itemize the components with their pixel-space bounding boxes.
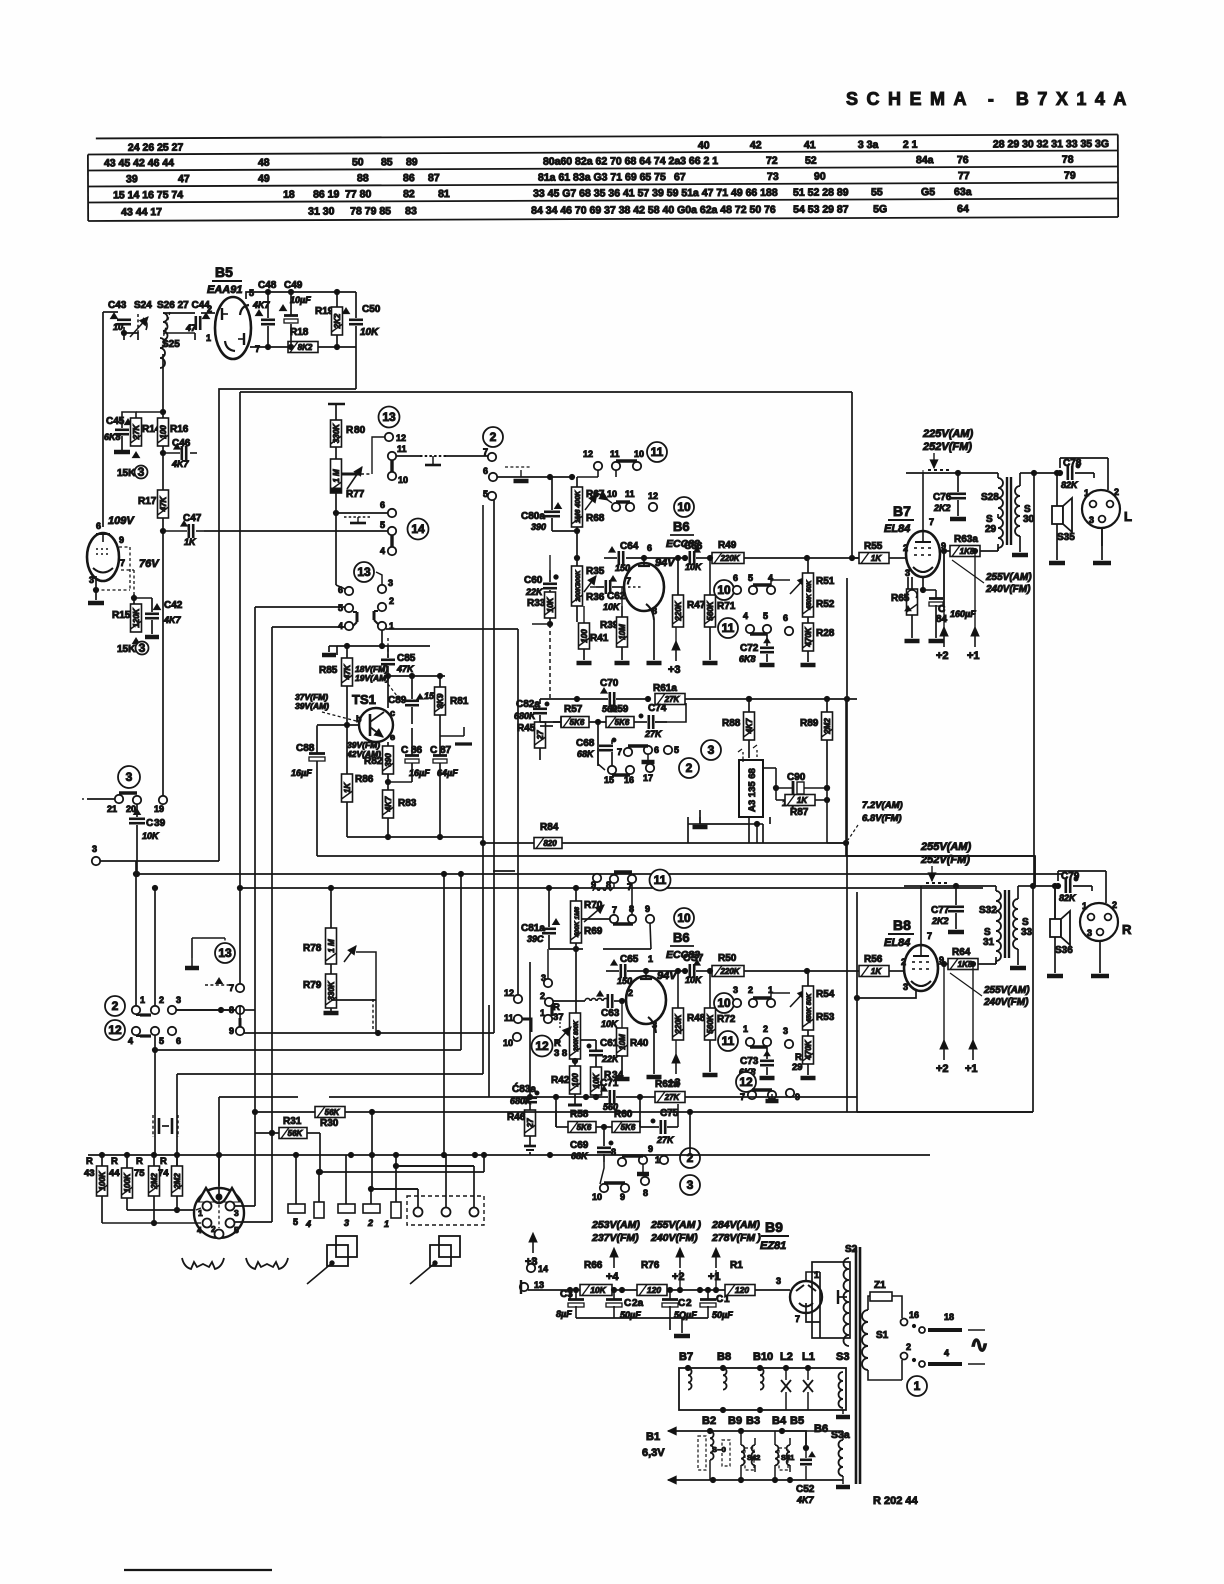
resistor R49 220K (682, 540, 860, 564)
wire pin3 node (923, 590, 936, 598)
svg-text:220K: 220K (719, 554, 740, 563)
potentiometer R77 1M (331, 459, 365, 500)
svg-text:R72: R72 (717, 1014, 736, 1025)
svg-text:2K2: 2K2 (333, 313, 342, 329)
resistor R28 470K (801, 623, 835, 665)
svg-text:83: 83 (405, 205, 417, 217)
contact 7t (483, 447, 496, 461)
contact 14 psu (527, 1264, 548, 1274)
potentiometer R38 (554, 949, 581, 1059)
resistor R89 2M2 (800, 699, 833, 770)
svg-text:EL84: EL84 (884, 523, 910, 535)
plus1 arrow b8 (965, 961, 978, 1075)
svg-text:S36: S36 (1055, 945, 1073, 956)
wire x518 871 (493, 870, 515, 872)
svg-text:10K: 10K (685, 975, 703, 985)
contact 7L (229, 983, 244, 993)
capacitor C39 (129, 809, 166, 841)
svg-text:R: R (160, 1156, 167, 1167)
svg-text:8: 8 (629, 904, 634, 914)
svg-text:12: 12 (535, 1039, 549, 1053)
contact 6m (733, 573, 741, 594)
svg-text:1: 1 (743, 1024, 748, 1034)
svg-text:6.8V(FM): 6.8V(FM) (862, 813, 902, 824)
svg-text:4: 4 (305, 1219, 311, 1229)
svg-text:2: 2 (367, 1218, 373, 1228)
svg-text:Ć83a: Ć83a (512, 1082, 536, 1095)
pin6 label (96, 521, 101, 531)
label B1 63V (642, 1431, 665, 1459)
contact 3mm (733, 985, 741, 1007)
svg-text:77 80: 77 80 (345, 188, 371, 200)
svg-text:5: 5 (483, 489, 488, 499)
contact 7d (617, 747, 632, 757)
svg-text:31 30: 31 30 (308, 206, 334, 218)
svg-text:C52: C52 (796, 1484, 815, 1495)
svg-text:2K2: 2K2 (931, 916, 949, 926)
svg-text:27K: 27K (644, 729, 663, 739)
svg-text:68K: 68K (577, 749, 595, 759)
svg-text:R47: R47 (687, 600, 706, 611)
svg-text:5: 5 (338, 603, 343, 613)
svg-text:76V: 76V (139, 558, 160, 570)
wire C42 bottom (145, 620, 159, 637)
wire R48 R72 bottoms b (703, 1040, 718, 1075)
bar mm (753, 996, 771, 999)
svg-text:75: 75 (134, 1168, 145, 1179)
wire C69 contacts (600, 1162, 604, 1184)
capacitor C89 (388, 676, 442, 724)
svg-text:C85: C85 (397, 653, 416, 664)
wire 8L row (244, 1009, 255, 1011)
labels voltages psu (591, 1219, 761, 1244)
svg-text:B2: B2 (702, 1415, 716, 1427)
wire pin5 out (235, 1133, 272, 1222)
svg-text:R36: R36 (586, 592, 605, 603)
wire c78 junction (1054, 470, 1059, 475)
pin3 label (89, 575, 94, 585)
wire x690 vert (687, 1109, 692, 1155)
coil S24 (130, 300, 152, 337)
svg-text:11: 11 (722, 621, 735, 635)
svg-text:R68: R68 (586, 513, 605, 524)
svg-text:Z1: Z1 (874, 1280, 886, 1291)
pins EZ81 (795, 1270, 819, 1324)
svg-text:B9: B9 (765, 1219, 783, 1235)
svg-text:43 44 17: 43 44 17 (121, 206, 162, 218)
svg-text:1 M: 1 M (332, 469, 341, 483)
circled 10 mid (714, 580, 734, 600)
svg-text:10: 10 (592, 1192, 602, 1202)
bar 4n-5n (750, 632, 767, 635)
svg-text:4: 4 (197, 1225, 202, 1235)
resistor R47 220K (673, 555, 706, 627)
core main (856, 1247, 860, 1484)
svg-text:255V(AM ): 255V(AM ) (650, 1219, 701, 1231)
svg-text:R28: R28 (816, 628, 835, 639)
wire sw10 tap (596, 492, 612, 503)
capacitor C68 (576, 722, 616, 759)
svg-text:3 8: 3 8 (554, 1048, 567, 1059)
svg-text:100K: 100K (123, 1172, 132, 1192)
resistor R18 8K2 (288, 327, 318, 353)
svg-text:560K: 560K (706, 600, 715, 620)
wire speaker R (1047, 886, 1063, 976)
wire x550 down (529, 962, 531, 1088)
svg-text:EL84: EL84 (884, 937, 910, 949)
wire 392 rail right (851, 392, 853, 558)
svg-text:5K6: 5K6 (615, 718, 630, 727)
coil S1 (862, 1310, 889, 1370)
resistor R57 5K6 (540, 704, 589, 728)
svg-text:C42: C42 (164, 600, 183, 611)
svg-text:15K: 15K (117, 644, 136, 655)
svg-text:84: 84 (936, 614, 948, 625)
contact 6t (483, 466, 497, 481)
svg-text:8: 8 (652, 606, 657, 616)
svg-text:8: 8 (643, 1188, 648, 1198)
contacts 3-2-1 left (503, 973, 553, 1048)
svg-text:R66: R66 (584, 1260, 603, 1271)
wire sw11 to R67 (577, 470, 616, 477)
bar 15d16d (612, 773, 630, 776)
dash bar left (205, 978, 232, 985)
svg-text:R30: R30 (320, 1118, 339, 1129)
svg-text:R50: R50 (718, 953, 737, 964)
wire top node TS1 (337, 638, 430, 658)
svg-text:200K800K: 200K800K (575, 569, 582, 602)
svg-text:1M6 400K: 1M6 400K (575, 490, 582, 523)
svg-text:1: 1 (648, 954, 653, 964)
svg-text:C73: C73 (740, 1056, 759, 1067)
coil b8a (723, 1368, 727, 1390)
svg-text:2: 2 (763, 1024, 768, 1034)
svg-text:R60: R60 (614, 1109, 633, 1120)
contacts 7-8-9 lower (610, 904, 654, 949)
svg-text:12: 12 (583, 449, 593, 459)
svg-text:R16: R16 (170, 424, 189, 435)
wire B5 pin7 row (250, 324, 356, 350)
wire c3b (376, 572, 382, 585)
circled 3 d (701, 740, 721, 760)
svg-text:47K: 47K (343, 663, 352, 680)
resistor R83 4K7 (383, 790, 417, 840)
svg-text:R89: R89 (800, 718, 819, 729)
svg-text:R57: R57 (564, 704, 583, 715)
svg-text:87: 87 (428, 172, 440, 184)
svg-text:150: 150 (615, 563, 630, 573)
jack squares 2 (410, 1236, 460, 1284)
svg-text:3: 3 (388, 578, 393, 588)
wire b8 pin2 (901, 970, 904, 972)
wire cathode gnd (647, 620, 662, 663)
contact 16 (901, 1310, 920, 1326)
svg-text:100: 100 (159, 425, 168, 439)
contact 5b (338, 603, 353, 613)
svg-text:22K: 22K (525, 587, 544, 597)
svg-text:10: 10 (607, 489, 617, 499)
wire 11-10 bar (390, 460, 393, 472)
svg-text:82: 82 (403, 188, 415, 200)
capacitor C76 (933, 473, 966, 519)
svg-text:3: 3 (783, 1026, 788, 1036)
resistor R61a 27K (653, 683, 857, 705)
coil b10a (760, 1368, 764, 1390)
svg-text:2: 2 (490, 430, 497, 444)
svg-text:51 52 28 89: 51 52 28 89 (793, 187, 849, 199)
svg-text:15K: 15K (117, 468, 136, 479)
din connector R (1080, 900, 1132, 941)
svg-text:R41: R41 (590, 633, 609, 644)
resistor R1 120 (697, 1260, 790, 1296)
capacitor C43 (108, 300, 131, 332)
svg-text:252V(FM): 252V(FM) (922, 441, 972, 453)
capacitor C62 (596, 576, 626, 612)
svg-text:2: 2 (906, 1342, 911, 1352)
resistor R42 100 (551, 1058, 582, 1105)
svg-text:24 26 25 27: 24 26 25 27 (128, 142, 184, 154)
svg-text:1: 1 (914, 1379, 921, 1393)
dashed cap sym1 (420, 456, 447, 465)
contact 2nn (763, 1024, 771, 1046)
gnd block (688, 817, 708, 827)
svg-text:C 39: C 39 (146, 818, 166, 829)
svg-text:84a: 84a (916, 154, 934, 166)
svg-text:C 2a: C 2a (624, 1298, 644, 1309)
svg-text:29: 29 (985, 524, 997, 535)
svg-text:39V(AM): 39V(AM) (295, 701, 329, 711)
svg-text:14: 14 (538, 1264, 548, 1274)
svg-text:120K: 120K (132, 607, 141, 627)
wire C74 R61a loop (655, 703, 686, 722)
svg-text:L1: L1 (802, 1351, 815, 1363)
speaker S36 (1050, 911, 1073, 956)
svg-text:100: 100 (571, 1073, 580, 1087)
svg-text:330K: 330K (327, 980, 336, 1000)
svg-text:R79: R79 (303, 980, 322, 991)
wire rail2 vertical (237, 392, 242, 891)
svg-text:220K: 220K (719, 967, 740, 976)
resistor R65 (891, 577, 920, 641)
svg-text:C64: C64 (620, 541, 639, 552)
svg-text:R35: R35 (586, 566, 605, 577)
resistor R60 5K6 (596, 1109, 640, 1133)
capacitor C46 (171, 438, 197, 469)
svg-text:R59: R59 (610, 704, 629, 715)
wire c5t down (483, 500, 494, 1033)
svg-text:56K: 56K (325, 1108, 341, 1117)
bar 2b-1b (374, 611, 378, 624)
contact 12 (385, 433, 406, 443)
svg-text:B6: B6 (814, 1423, 828, 1435)
transformer core R (1005, 890, 1009, 958)
bar 5b-4b (353, 612, 357, 626)
svg-text:3K9: 3K9 (436, 693, 445, 708)
svg-text:3: 3 (344, 1218, 349, 1228)
wire S33 top to C79 (1018, 883, 1061, 888)
svg-text:C65: C65 (620, 954, 639, 965)
svg-text:1 M: 1 M (327, 939, 336, 953)
pin 1 label (206, 333, 211, 343)
svg-text:S3: S3 (836, 1351, 849, 1363)
pin6 t (647, 543, 652, 553)
svg-text:330K: 330K (332, 423, 341, 443)
wire c4b (269, 627, 345, 1136)
svg-text:∿: ∿ (970, 1332, 988, 1357)
plus3 a (668, 627, 681, 676)
svg-text:R40: R40 (630, 1038, 649, 1049)
svg-text:C76: C76 (933, 492, 952, 503)
svg-text:41: 41 (804, 139, 816, 151)
transformer S32 coil (979, 886, 1001, 931)
pin3 b8 (903, 982, 908, 992)
bar 7d6d (628, 744, 648, 747)
wire R17-C47-down (160, 518, 187, 796)
wire EZ81 bottom (806, 1313, 820, 1322)
wire nested rails (136, 874, 1063, 888)
contact 4m (767, 573, 775, 594)
svg-text:44: 44 (109, 1168, 120, 1179)
wire R15 C42 top (131, 594, 152, 612)
speaker S35 (1052, 498, 1075, 543)
svg-text:50: 50 (352, 156, 364, 168)
wire pin4 in (196, 1222, 201, 1224)
svg-text:52: 52 (805, 155, 817, 167)
coil S3 (836, 1372, 850, 1417)
svg-text:C72: C72 (740, 643, 759, 654)
contact 15d (604, 766, 616, 785)
resistor R85 47K (319, 646, 353, 726)
pin2 tb (628, 988, 633, 998)
svg-text:76: 76 (957, 154, 969, 166)
contact 10 (388, 472, 408, 485)
bar nn (750, 1045, 767, 1048)
boxes small 3 (338, 1155, 355, 1228)
wire 13 to R66 (528, 1257, 573, 1293)
svg-text:9: 9 (620, 1192, 625, 1202)
svg-text:+1: +1 (967, 650, 980, 662)
svg-text:81: 81 (438, 188, 450, 200)
svg-text:255V(AM): 255V(AM) (985, 572, 1032, 583)
svg-text:10: 10 (113, 322, 123, 332)
svg-text:72: 72 (766, 155, 778, 167)
svg-text:37: 37 (553, 1012, 564, 1023)
label B8 (884, 917, 914, 949)
contact 17d (643, 764, 654, 783)
svg-text:7.2V(AM): 7.2V(AM) (862, 800, 903, 811)
capacitor C73 (739, 1047, 775, 1078)
svg-text:255V(AM): 255V(AM) (920, 841, 971, 853)
svg-text:2K2: 2K2 (933, 503, 951, 513)
wire bottom bus y1155 (88, 1152, 930, 1157)
svg-text:2: 2 (540, 991, 545, 1001)
wire R44 to pin1 (127, 1209, 196, 1211)
wire C43-S24 (103, 312, 138, 340)
capacitor C60 (524, 575, 558, 597)
plus2 arrow b8 (936, 964, 949, 1075)
svg-text:S25: S25 (162, 339, 180, 350)
svg-text:10K: 10K (142, 831, 160, 841)
wire b8 pin3 (854, 989, 916, 1001)
svg-text:3: 3 (234, 1208, 239, 1218)
wire din L gnd (1093, 528, 1111, 563)
resistor R76 120 (611, 1260, 700, 1296)
capacitor C2a (606, 1290, 644, 1320)
svg-text:4K7: 4K7 (384, 796, 393, 812)
resistor R44 100K (109, 1155, 133, 1210)
svg-text:R: R (111, 1156, 118, 1167)
svg-text:150: 150 (617, 976, 632, 986)
pin2 b7 (903, 543, 908, 553)
svg-text:B5: B5 (215, 264, 233, 280)
arrow 255V (928, 866, 936, 881)
wire collector (387, 700, 389, 708)
svg-text:40: 40 (698, 140, 710, 152)
resistor R81 3K9 (435, 676, 469, 724)
contact 8L (229, 1005, 244, 1015)
wire b8 box (856, 892, 858, 1097)
label B6 lower (666, 908, 700, 961)
svg-text:5K6: 5K6 (570, 718, 585, 727)
circled 13 lower (354, 562, 374, 582)
svg-text:27K: 27K (664, 1093, 681, 1102)
svg-text:5: 5 (380, 520, 385, 530)
resistor R31 56K (255, 1116, 323, 1175)
contact 6d (644, 745, 659, 755)
svg-text:7: 7 (483, 447, 488, 457)
svg-text:400K 1M6: 400K 1M6 (574, 907, 581, 938)
resistor R46 27 (507, 1104, 536, 1150)
svg-text:11: 11 (397, 444, 407, 454)
svg-text:100K: 100K (98, 1170, 107, 1190)
svg-text:TS1: TS1 (352, 692, 376, 707)
label 94V (655, 557, 676, 569)
svg-text:3: 3 (903, 982, 908, 992)
svg-text:6: 6 (654, 745, 659, 755)
svg-text:240V(FM): 240V(FM) (985, 584, 1031, 595)
svg-text:R51: R51 (816, 576, 835, 587)
contact 4b (338, 621, 353, 631)
svg-text:C74: C74 (648, 703, 667, 714)
capacitor C52 (796, 1445, 815, 1505)
bar 4L5L (136, 1035, 151, 1037)
contact 6L (168, 1027, 181, 1046)
svg-text:43: 43 (84, 1168, 95, 1179)
capacitor C64 (604, 541, 647, 573)
wire x1033 down (1033, 473, 1034, 1112)
svg-text:42: 42 (750, 139, 762, 151)
jack squares 1 (307, 1236, 357, 1284)
svg-text:R53: R53 (816, 1012, 835, 1023)
contact 1nn (743, 1024, 754, 1046)
svg-text:4K7: 4K7 (163, 615, 182, 625)
svg-text:109V: 109V (108, 515, 135, 527)
potentiometer R54 R53 (803, 971, 835, 1036)
tube B8 EL84 (904, 945, 938, 991)
pin9 b7 (941, 541, 946, 551)
svg-text:R45: R45 (517, 723, 536, 734)
plus2 psu (672, 1248, 685, 1290)
capacitor C83a (510, 1082, 539, 1106)
contacts 8-9-10 e (611, 1144, 668, 1174)
wire 20 down C39 (134, 804, 139, 877)
contact 1b (378, 621, 394, 631)
svg-text:470K: 470K (804, 1039, 813, 1060)
dash coil top (593, 884, 614, 891)
contact 1L (132, 995, 145, 1014)
switch 11 contacts top (583, 449, 644, 470)
svg-text:278V(FM ): 278V(FM ) (711, 1232, 761, 1244)
